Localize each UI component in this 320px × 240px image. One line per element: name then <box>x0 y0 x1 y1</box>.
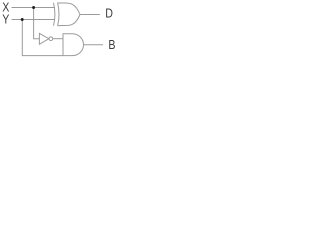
svg-text:B: B <box>108 37 115 52</box>
svg-text:Y: Y <box>2 11 9 26</box>
svg-text:D: D <box>105 5 113 20</box>
